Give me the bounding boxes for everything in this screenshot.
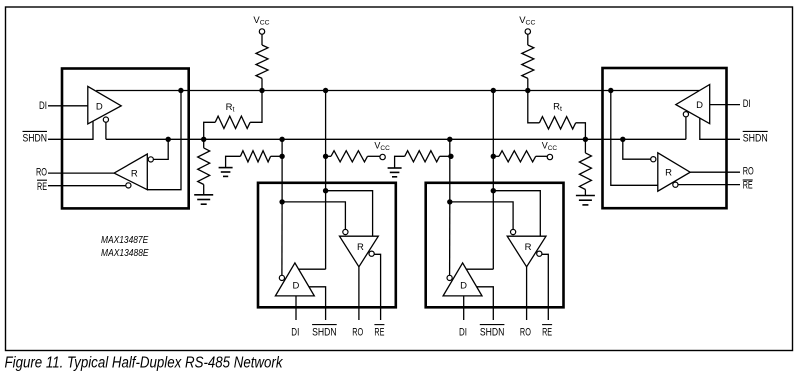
figure caption <box>5 355 284 372</box>
svg-text:DI: DI <box>459 326 467 338</box>
pin label DI (U3) <box>291 326 299 338</box>
wire SHDN to driver edge (U3) <box>309 287 326 320</box>
wire driver output to A-drop (U3) <box>298 268 325 270</box>
wire bus A to receiver input (U1) <box>147 91 181 190</box>
svg-text:VCC: VCC <box>374 140 390 152</box>
wire driver output to A-drop (U4) <box>466 268 493 270</box>
junction bus A / pull-up / Rt (right) <box>525 88 530 93</box>
wire RO from receiver (U2) <box>690 171 740 173</box>
svg-text:R: R <box>665 168 672 179</box>
svg-text:DI: DI <box>743 98 751 110</box>
svg-text:D: D <box>696 100 703 111</box>
driver D (U1) <box>88 86 121 124</box>
pin label RO (U3) <box>352 326 363 338</box>
svg-text:VCC: VCC <box>253 15 269 27</box>
svg-text:R: R <box>525 242 532 253</box>
wire DI to driver (U2) <box>710 104 740 106</box>
wire bus B tap to receiver bubble (U2) <box>623 139 651 159</box>
ground (bias, stub 1) <box>219 168 233 177</box>
pull-down resistor to ground (right) <box>579 139 591 195</box>
receiver inverting input bubble (U3) <box>343 229 348 234</box>
wire SHDN to driver D lower edge (U2) <box>700 118 740 139</box>
wire RE from receiver (U4) <box>542 254 548 320</box>
wire bus B drop into box (U3) <box>281 139 283 202</box>
receiver enable bubble (U4) <box>537 251 542 256</box>
svg-text:DI: DI <box>39 100 47 112</box>
junction bus B / stub drop (U3) <box>279 137 284 142</box>
label Rt (right) <box>553 102 562 114</box>
junction bus B / Rt / pull-down (right) <box>583 137 588 142</box>
power VCC terminal (bias, stub 2) <box>542 140 558 159</box>
wire bus A drop into box (U3) <box>325 91 327 270</box>
wire DI to driver (U1) <box>48 105 88 107</box>
pin label RO (U4) <box>520 326 531 338</box>
wire bus B (bottom differential line) <box>106 138 686 140</box>
junction bus A / pull-up / Rt (left) <box>259 88 264 93</box>
pin label SHDN (U2) <box>743 131 768 144</box>
bias resistor to VCC (node A, stub 1) <box>326 151 380 162</box>
svg-text:D: D <box>292 281 299 292</box>
wire SHDN to driver D lower edge (U1) <box>48 121 93 139</box>
junction bus A / driver output (U1) <box>178 88 183 93</box>
wire driver bubble to B-drop (U4) <box>449 204 451 275</box>
wire DI to driver (U3) <box>295 296 297 320</box>
termination resistor Rt (left) <box>204 91 262 140</box>
wire bus A (top differential line) <box>96 90 699 92</box>
svg-text:Rt: Rt <box>226 102 235 114</box>
bias resistor to VCC (node A, stub 2) <box>493 151 547 162</box>
driver inverting output bubble (U1) <box>103 117 108 122</box>
wire B to receiver bubble (U4) <box>450 202 513 230</box>
svg-text:VCC: VCC <box>519 15 535 27</box>
pin label RE (U2) <box>743 179 753 191</box>
wire bus B drop into box (U4) <box>449 139 451 202</box>
pin label SHDN (U1) <box>23 131 48 144</box>
junction bias/stub-B (stub 2) <box>448 154 453 159</box>
receiver R (U4) <box>507 236 546 267</box>
pin label DI (U4) <box>459 326 467 338</box>
wire bus A to receiver input (U2) <box>611 91 658 186</box>
svg-text:MAX13487E: MAX13487E <box>101 235 149 246</box>
wire driver bubble to bus B (U1) <box>105 122 107 139</box>
wire VCC to resistor (right pull-up) <box>527 34 529 45</box>
driver inverting output bubble (U4) <box>447 275 452 280</box>
junction bias/stub-A (stub 1) <box>323 154 328 159</box>
junction bus B / stub drop (U4) <box>447 137 452 142</box>
transceiver box U1 (MAX13487E) <box>62 69 189 209</box>
receiver R (U3) <box>340 236 379 267</box>
receiver R (U2) <box>658 153 690 191</box>
svg-text:R: R <box>131 169 138 180</box>
pull-down resistor to ground (left) <box>198 139 210 195</box>
svg-text:RO: RO <box>36 167 47 179</box>
driver inverting output bubble (U3) <box>279 275 284 280</box>
pin label DI (U1) <box>39 100 47 112</box>
power VCC terminal (left pull-up) <box>253 15 269 34</box>
junction A-drop / receiver wire (U4) <box>491 188 496 193</box>
wire driver bubble to B-drop (U3) <box>281 204 283 275</box>
part label MAX13487E / MAX13488E <box>101 235 149 259</box>
wire driver bubble to bus B (U2) <box>685 117 687 140</box>
svg-text:VCC: VCC <box>542 140 558 152</box>
svg-text:RO: RO <box>520 326 531 338</box>
receiver inverting input bubble (U4) <box>510 229 515 234</box>
junction bias/stub-B (stub 1) <box>279 154 284 159</box>
junction bus A / stub drop (U4) <box>491 88 496 93</box>
bias resistor to ground (node B, stub 1) <box>226 151 283 168</box>
pin label RO (U1) <box>36 167 47 179</box>
svg-text:RE: RE <box>743 179 753 191</box>
wire bus A drop into box (U4) <box>492 91 494 270</box>
driver D (U3) <box>275 263 314 296</box>
resistor left pull-up <box>256 45 268 78</box>
junction bus A / stub drop (U3) <box>323 88 328 93</box>
svg-text:RE: RE <box>542 326 552 338</box>
wire DI to driver (U4) <box>463 296 465 320</box>
wire RO from receiver (U1) <box>48 172 114 174</box>
wire RO from receiver (U4) <box>526 267 528 320</box>
receiver enable bubble (U3) <box>369 251 374 256</box>
pin label RO (U2) <box>743 166 754 178</box>
receiver inverting input bubble (U2) <box>651 157 656 162</box>
ground (left pull-down) <box>194 195 213 204</box>
wire A to receiver input (U4) <box>493 191 540 237</box>
svg-text:SHDN: SHDN <box>743 132 768 144</box>
svg-text:R: R <box>357 242 364 253</box>
svg-text:DI: DI <box>291 326 299 338</box>
resistor right pull-up <box>522 45 534 78</box>
junction bus B / receiver input (U1) <box>166 137 171 142</box>
driver D (U4) <box>443 263 482 296</box>
wire bus B tap to receiver bubble (U1) <box>153 139 168 159</box>
svg-text:Rt: Rt <box>553 102 562 114</box>
svg-text:D: D <box>460 281 467 292</box>
wire resistor to bus A (right pull-up) <box>527 78 529 90</box>
wire SHDN to driver edge (U4) <box>477 287 494 320</box>
label Rt (left) <box>226 102 235 114</box>
pin label RE (U4) <box>542 325 552 339</box>
wire resistor to bus A (left pull-up) <box>261 78 263 90</box>
svg-text:MAX13488E: MAX13488E <box>101 248 149 259</box>
junction B-drop / receiver wire (U3) <box>279 199 284 204</box>
svg-text:RO: RO <box>352 326 363 338</box>
transceiver box U3 <box>258 183 396 307</box>
svg-text:Figure 11. Typical Half-Duplex: Figure 11. Typical Half-Duplex RS-485 Ne… <box>5 355 284 372</box>
pin label SHDN (U4) <box>480 325 505 339</box>
power VCC terminal (bias, stub 1) <box>374 140 390 159</box>
wire RO from receiver (U3) <box>358 267 360 320</box>
ground (right pull-down) <box>576 196 595 205</box>
bias resistor to ground (node B, stub 2) <box>395 151 451 168</box>
driver D (U2) <box>676 85 710 124</box>
pin label RE (U3) <box>374 325 384 339</box>
receiver R (U1) <box>114 154 147 190</box>
wire VCC to resistor (left pull-up) <box>261 34 263 45</box>
svg-text:D: D <box>96 101 103 112</box>
junction bus B / Rt / pull-down (left) <box>201 137 206 142</box>
receiver enable bubble (U1) <box>126 183 131 188</box>
receiver enable bubble (U2) <box>673 182 678 187</box>
svg-text:SHDN: SHDN <box>480 326 505 338</box>
junction bus B / receiver input (U2) <box>620 137 625 142</box>
svg-text:RE: RE <box>37 181 47 193</box>
svg-text:RE: RE <box>374 326 384 338</box>
wire RE to receiver (U1) <box>48 185 126 187</box>
power VCC terminal (right pull-up) <box>519 15 535 34</box>
wire B to receiver bubble (U3) <box>282 202 345 230</box>
junction A-drop / receiver wire (U3) <box>323 188 328 193</box>
svg-text:SHDN: SHDN <box>23 132 48 144</box>
junction B-drop / receiver wire (U4) <box>447 199 452 204</box>
wire A to receiver input (U3) <box>326 191 373 237</box>
pin label RE (U1) <box>37 180 47 193</box>
wire RE to receiver (U2) <box>678 184 740 186</box>
junction bus A / driver output (U2) <box>608 88 613 93</box>
svg-text:SHDN: SHDN <box>312 326 337 338</box>
receiver inverting input bubble (U1) <box>148 157 153 162</box>
svg-text:RO: RO <box>743 166 754 178</box>
junction bias/stub-A (stub 2) <box>491 154 496 159</box>
wire RE from receiver (U3) <box>374 254 380 320</box>
termination resistor Rt (right) <box>528 91 586 140</box>
transceiver box U2 <box>603 68 727 208</box>
pin label DI (U2) <box>743 98 751 110</box>
driver inverting output bubble (U2) <box>683 112 688 117</box>
transceiver box U4 <box>426 183 564 307</box>
ground (bias, stub 2) <box>388 168 402 177</box>
pin label SHDN (U3) <box>312 325 337 339</box>
